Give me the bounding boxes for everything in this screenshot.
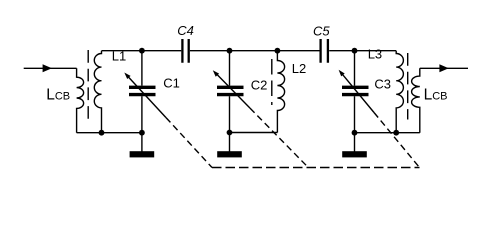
wire top rail: L1 to C4 xyxy=(102,50,182,52)
capacitor C1 plates xyxy=(129,87,156,94)
wire C2 vertical upper xyxy=(229,51,231,86)
core of input transformer (dashed) xyxy=(87,50,89,120)
capacitor C4 xyxy=(182,39,188,63)
wire C3 vertical lower xyxy=(354,96,356,133)
node C1 top xyxy=(139,48,145,54)
node L3 bottom xyxy=(393,130,399,136)
wire bottom rail section 1 xyxy=(77,132,142,134)
svg-text:L2: L2 xyxy=(292,61,306,76)
wire bottom rail section 3 xyxy=(355,132,420,134)
inductor L3 xyxy=(396,51,403,133)
node C3 top xyxy=(352,48,358,54)
svg-text:LСВ: LСВ xyxy=(424,87,448,104)
wire C3 vertical upper xyxy=(354,51,356,86)
ground 3 xyxy=(342,151,367,157)
node L2 top xyxy=(275,48,281,54)
node C2 bottom xyxy=(227,130,233,136)
svg-text:L3: L3 xyxy=(368,47,382,62)
capacitor C5 xyxy=(321,39,328,63)
svg-text:LСВ: LСВ xyxy=(46,87,70,104)
wire input line xyxy=(24,67,77,69)
ground stem 3 xyxy=(354,133,356,152)
wire top rail: C5 to L3 xyxy=(329,50,396,52)
wire bottom rail section 2 xyxy=(230,132,278,134)
capacitor C2 plates xyxy=(217,87,244,94)
wire C1 vertical lower xyxy=(141,96,143,133)
core of L2 (dashed) xyxy=(271,59,273,105)
inductor L2 xyxy=(277,51,284,133)
wire C1 vertical upper xyxy=(141,51,143,86)
input arrow xyxy=(43,64,52,72)
ganging link (dashed horizontal) xyxy=(212,167,420,169)
core of output transformer (dashed) xyxy=(407,53,409,120)
node L1 bottom xyxy=(99,130,105,136)
svg-text:C4: C4 xyxy=(177,23,194,38)
tuning arrow C3 xyxy=(342,74,374,112)
coupling coil Lсв right xyxy=(412,68,420,132)
tuning arrow C2 xyxy=(217,74,250,108)
wire C2 vertical lower xyxy=(229,96,231,132)
svg-text:C5: C5 xyxy=(313,23,330,38)
wire output line xyxy=(420,67,468,69)
svg-text:C3: C3 xyxy=(374,77,391,92)
tuning arrow C1 xyxy=(128,77,166,118)
node C3 bottom xyxy=(352,130,358,136)
output arrow xyxy=(439,64,448,72)
ground 1 xyxy=(130,151,155,157)
node C2 top xyxy=(227,48,233,54)
node C1 bottom xyxy=(139,130,145,136)
ground stem 2 xyxy=(229,133,231,152)
inductor L1 xyxy=(94,51,101,133)
svg-text:C1: C1 xyxy=(163,76,180,91)
capacitor C3 plates xyxy=(342,87,369,94)
ground stem 1 xyxy=(141,133,143,152)
coupling coil Lсв left xyxy=(77,68,84,132)
svg-text:C2: C2 xyxy=(251,78,268,93)
wire top rail: C4 to C5 xyxy=(190,50,320,52)
ground 2 xyxy=(217,151,242,157)
